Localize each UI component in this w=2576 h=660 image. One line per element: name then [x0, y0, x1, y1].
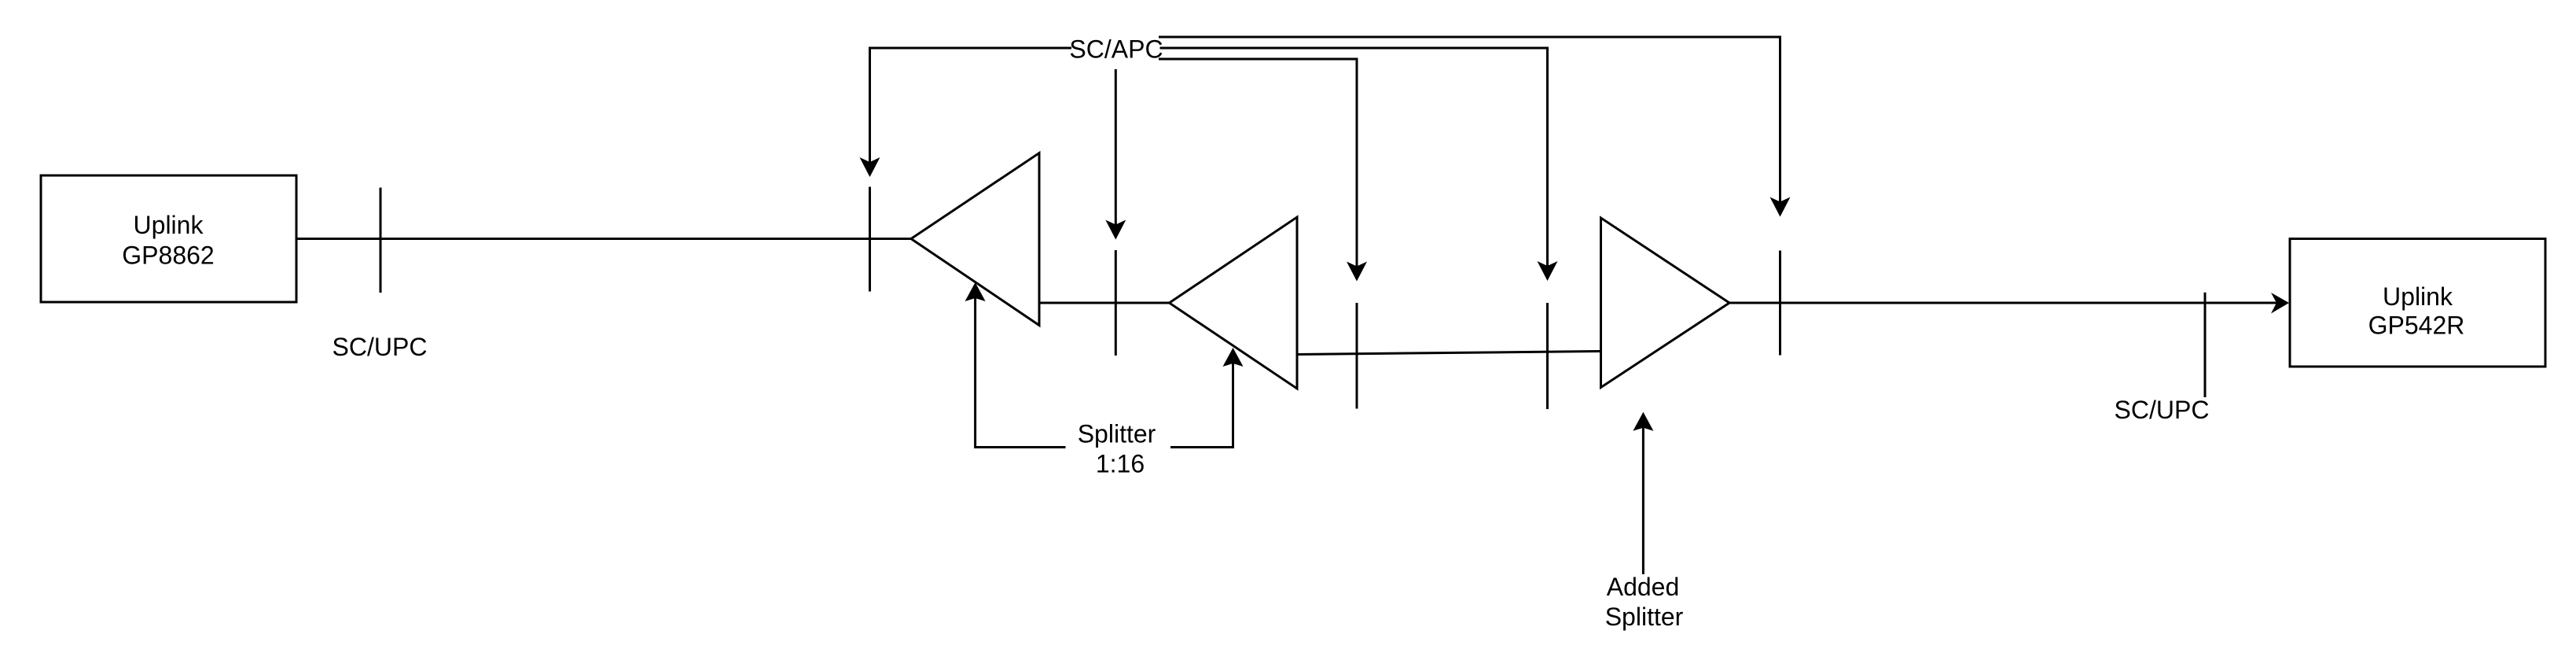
- wire: A2 output to A3 input: [1297, 352, 1601, 355]
- connector tick N5: SC/APC on A3 output: [1779, 251, 1781, 356]
- wire: A1 output to A2 input: [1039, 302, 1170, 304]
- label: Splitter 1:16: [1078, 420, 1156, 478]
- arrowhead: leader 1 down: [860, 157, 880, 177]
- connector tick: SC/UPC left: [380, 188, 382, 293]
- label U1: Uplink GP8862: [122, 211, 214, 270]
- arrowhead: splitter right up: [1223, 348, 1244, 367]
- wire: SC/APC leader 5: [1159, 37, 1780, 202]
- splitter callout: right up arrow into A2: [1170, 363, 1233, 448]
- amplifier A3 (triangle pointing right): [1601, 218, 1730, 388]
- wire: SC/APC leader 3: [1159, 59, 1357, 267]
- arrowhead: leader 2 down: [1105, 220, 1126, 240]
- wire: A3 output to GP542R: [1729, 302, 2277, 304]
- label: Added Splitter: [1605, 573, 1684, 631]
- arrowhead: leader 5 down: [1770, 197, 1791, 217]
- svg-text:Uplink: Uplink: [2383, 282, 2453, 311]
- svg-text:GP8862: GP8862: [122, 242, 214, 270]
- svg-text:SC/APC: SC/APC: [1069, 35, 1163, 64]
- box U1: Uplink GP8862: [41, 175, 296, 302]
- svg-text:GP542R: GP542R: [2368, 312, 2465, 340]
- wire: GP8862 output to amplifier A1 input: [296, 238, 911, 240]
- wire: SC/APC leader 1 (to tick N1): [870, 48, 1072, 162]
- connector tick N3: SC/APC on A2-A3 wire: [1356, 303, 1358, 409]
- svg-text:SC/UPC: SC/UPC: [333, 333, 428, 361]
- svg-text:SC/UPC: SC/UPC: [2115, 396, 2210, 424]
- splitter callout: left up arrow into A1: [976, 298, 1066, 448]
- arrowhead: added splitter up: [1633, 412, 1653, 431]
- amplifier A1 (triangle pointing left): [911, 153, 1039, 326]
- svg-text:1:16: 1:16: [1096, 450, 1145, 478]
- arrowhead: into GP542R (right): [2271, 293, 2289, 314]
- connector tick N1: SC/APC on A1 input: [869, 187, 871, 292]
- box U2: Uplink GP542R: [2290, 239, 2545, 367]
- wire: SC/APC leader 4: [1160, 48, 1548, 266]
- svg-text:Splitter: Splitter: [1078, 420, 1156, 448]
- arrowhead: leader 3 down: [1347, 262, 1367, 282]
- svg-text:Uplink: Uplink: [134, 211, 204, 239]
- svg-text:Added: Added: [1607, 573, 1680, 601]
- svg-text:Splitter: Splitter: [1605, 603, 1684, 631]
- added splitter: up arrow into A3: [1642, 428, 1644, 574]
- label U2: Uplink GP542R: [2368, 282, 2465, 340]
- connector tick N2: SC/APC on A1-A2 wire: [1115, 250, 1117, 356]
- wire: SC/APC leader 2 (direct vertical): [1115, 69, 1117, 225]
- connector tick: SC/UPC right: [2204, 293, 2207, 397]
- amplifier A2 (triangle pointing left): [1170, 217, 1298, 389]
- arrowhead: splitter left up: [965, 282, 986, 301]
- connector tick N4: SC/APC on A2-A3 wire right: [1546, 303, 1549, 409]
- arrowhead: leader 4 down: [1538, 261, 1558, 281]
